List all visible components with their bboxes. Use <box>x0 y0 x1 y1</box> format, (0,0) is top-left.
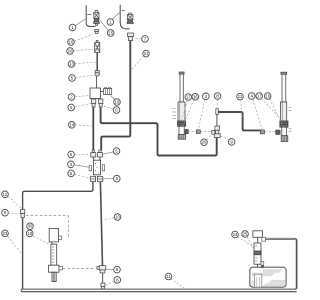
block outlet fitting right <box>99 99 103 107</box>
callout 23 <box>2 230 22 254</box>
callout 19 <box>111 96 121 106</box>
callout 9 (cross) <box>221 136 235 145</box>
pipe B (block to cross fitting, zigzag) <box>101 107 217 155</box>
pipe C (from pump P2 down and left into valve) <box>101 41 130 151</box>
right cylinder port fitting <box>276 130 281 135</box>
cross fitting assembly <box>212 109 220 138</box>
svg-text:16: 16 <box>265 94 270 99</box>
connector 4 (left) <box>188 130 212 134</box>
pump P2 <box>127 13 133 24</box>
svg-text:24: 24 <box>233 232 238 237</box>
rod 13 <box>96 53 98 71</box>
callout 8 (cross elbow) <box>214 93 221 109</box>
pipe D (cross to right cylinder) <box>218 112 260 130</box>
callout 20 (cross) <box>201 134 213 146</box>
callout 9 (left) <box>2 209 20 216</box>
callout 4 (right) <box>248 93 262 130</box>
return valve 24/25 <box>253 231 266 268</box>
callout 7 <box>134 36 148 43</box>
callout 1 (left) <box>69 19 85 31</box>
junction block 2 <box>90 88 101 99</box>
bottom hose (double line) <box>21 289 296 292</box>
ball fitting 5 <box>95 71 100 77</box>
callout 25 <box>242 231 255 250</box>
fitting 16 (below pump P1) <box>95 30 99 34</box>
svg-text:17: 17 <box>186 95 191 100</box>
connector 4 (right) + link to right cylinder <box>260 130 277 134</box>
callout 5 (valve top right) <box>103 148 120 155</box>
connector on left pipe <box>21 210 25 218</box>
callout 21 <box>132 50 149 69</box>
svg-text:17: 17 <box>257 94 262 99</box>
callout 24 <box>232 231 254 247</box>
pipe E (valve left port to left side run) <box>23 182 93 289</box>
callout 9 (bottom) <box>106 266 120 273</box>
callout 12 <box>2 191 21 208</box>
svg-text:21: 21 <box>144 51 149 56</box>
coupler 20 <box>95 41 100 53</box>
svg-text:23: 23 <box>3 231 8 236</box>
callout 5 (valve bottom left) <box>68 170 90 178</box>
callout 10 (hose) <box>105 214 121 221</box>
bottom valve 3: top fittings <box>91 150 103 160</box>
svg-text:13: 13 <box>69 62 74 67</box>
hose 1 (left, to pump P1) <box>86 5 95 26</box>
hose 1 (right, to pump P2) <box>120 5 129 29</box>
solenoid pump 30 <box>49 229 61 245</box>
bottom valve 3: bottom fittings <box>91 176 103 181</box>
pipe F (valve right port long drop) <box>100 182 102 266</box>
bracket 19 <box>101 87 112 94</box>
tee fitting 9 (bottom) <box>97 266 106 273</box>
callout 13 <box>68 61 95 68</box>
pump P1 <box>94 10 100 25</box>
callout 15 <box>99 19 114 36</box>
callout 5 (valve top left) <box>68 151 90 158</box>
callout 5 <box>69 75 94 82</box>
callout 4 (left) <box>199 93 210 129</box>
callout 6 <box>103 106 120 113</box>
callout 11 <box>165 273 184 288</box>
svg-text:10: 10 <box>115 215 120 220</box>
left lift cylinder <box>172 72 185 139</box>
callout 16 (right cyl) <box>264 93 283 128</box>
svg-text:20: 20 <box>68 49 73 54</box>
pipe A (left drop from block) <box>92 107 94 150</box>
dashed link to tee <box>63 267 95 269</box>
svg-text:25: 25 <box>243 232 248 237</box>
callout 22 <box>237 93 244 118</box>
right lift cylinder <box>280 72 292 141</box>
svg-text:12: 12 <box>3 192 8 197</box>
link rod into block <box>96 76 98 88</box>
callout 17 (right cyl) <box>256 93 282 121</box>
svg-text:19: 19 <box>115 100 120 105</box>
callout 30 <box>27 223 34 230</box>
left cylinder port fitting <box>185 129 188 133</box>
bottom valve 3: body <box>89 160 105 175</box>
callout 20 <box>67 48 93 55</box>
filter body 10 <box>49 244 63 281</box>
callout 14 <box>69 122 93 129</box>
svg-text:15: 15 <box>108 31 113 36</box>
tank <box>250 265 286 287</box>
svg-text:30: 30 <box>28 224 33 229</box>
callout 5 (block outlets) <box>68 104 91 111</box>
callout 17 (left cyl) <box>182 94 192 121</box>
callout 8 (bottom) <box>106 277 121 286</box>
svg-text:16: 16 <box>193 94 198 99</box>
svg-text:20: 20 <box>202 140 207 145</box>
callout 2 <box>68 94 89 101</box>
callout 3 <box>68 161 89 168</box>
elbow fitting to bottom hose <box>101 273 105 289</box>
fitting 7 <box>128 33 134 41</box>
svg-text:16: 16 <box>69 40 74 45</box>
dashed box (bottom-left subassembly) <box>26 216 68 239</box>
svg-text:14: 14 <box>69 122 74 127</box>
block outlet fitting left <box>91 99 95 107</box>
return pipe (valve to right edge, down to hose) <box>266 239 297 289</box>
callout 16 <box>68 35 93 46</box>
callout 8 (valve bottom right) <box>103 175 120 182</box>
svg-text:22: 22 <box>238 94 243 99</box>
callout 16 (left cyl) <box>182 94 198 128</box>
svg-text:11: 11 <box>166 274 171 279</box>
svg-text:10: 10 <box>27 231 32 236</box>
callout 10 (pump) <box>26 230 50 245</box>
callout 1 (right) <box>107 13 120 26</box>
